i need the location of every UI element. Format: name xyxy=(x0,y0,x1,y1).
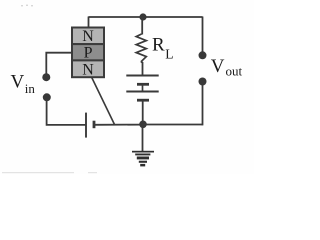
node Vin bottom terminal xyxy=(43,93,51,101)
scan artifact bottom edge xyxy=(2,172,97,173)
battery B1 short plate 1 xyxy=(137,83,149,86)
wire Vout drop upper xyxy=(202,17,204,52)
resistor RL zigzag xyxy=(136,34,146,61)
wire battery to bottom junction xyxy=(142,100,144,124)
svg-text:R: R xyxy=(152,34,165,55)
wire junction to ground xyxy=(142,125,144,152)
wire battery inter-cell tick xyxy=(142,84,144,91)
svg-text:out: out xyxy=(226,64,243,79)
svg-text:N: N xyxy=(82,28,94,45)
svg-text:V: V xyxy=(211,56,225,77)
svg-text:N: N xyxy=(82,62,94,79)
wire resistor to battery xyxy=(142,61,143,76)
wire emitter diagonal lead xyxy=(92,77,115,125)
svg-text:in: in xyxy=(25,81,36,96)
wire Vin bottom to battery B2 xyxy=(47,101,86,125)
wire base lead from P region xyxy=(46,53,72,74)
battery B2 long plate xyxy=(85,113,87,138)
svg-text:L: L xyxy=(165,47,173,62)
svg-text:V: V xyxy=(11,72,25,93)
node Vout bottom terminal xyxy=(199,78,207,86)
scan artifact top left xyxy=(21,5,33,7)
wire collector drop to transistor top xyxy=(88,17,90,29)
wire Vout drop lower xyxy=(202,85,204,125)
battery B1 short plate 2 xyxy=(137,99,149,102)
battery B1 long plate 1 xyxy=(126,75,158,77)
battery B2 short plate xyxy=(93,121,96,129)
node top junction xyxy=(139,13,146,20)
wire battery B2 to bottom rail xyxy=(94,124,143,126)
node bottom junction xyxy=(139,121,147,129)
ground xyxy=(132,151,154,167)
transistor NPN stack P region xyxy=(72,44,104,60)
node Vout top terminal xyxy=(199,51,207,59)
wire top rail xyxy=(89,16,203,18)
battery B1 long plate 2 xyxy=(126,91,158,93)
wire bottom rail right xyxy=(143,124,203,126)
wire junction to resistor xyxy=(141,17,143,35)
transistor NPN stack N region bottom xyxy=(72,60,104,77)
svg-text:P: P xyxy=(84,45,93,62)
node Vin top terminal xyxy=(42,73,50,81)
transistor NPN stack N region top xyxy=(72,28,104,45)
